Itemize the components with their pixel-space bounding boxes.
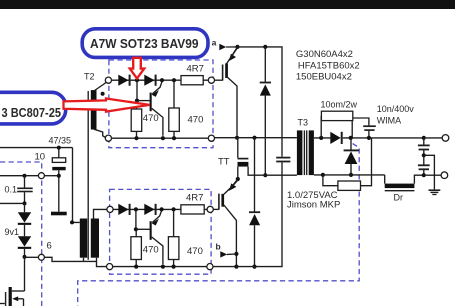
diode D lower left (18, 236, 31, 246)
wire T2 top lead (94, 83, 106, 91)
node D7 cathode (349, 136, 353, 140)
svg-text:10: 10 (35, 151, 46, 162)
capacitor C 0.1 (24, 176, 26, 188)
arrow red down (130, 58, 144, 79)
resistor 4R7 upper (181, 76, 203, 85)
terminal lower box right-top (207, 206, 213, 212)
node at R2 top (172, 78, 176, 82)
terminal circle lower on dashed box (38, 254, 44, 260)
svg-text:6: 6 (47, 240, 52, 251)
resistor R2 470 upper (173, 80, 175, 108)
transformer T2 core (87, 91, 89, 260)
svg-text:Dr: Dr (394, 193, 404, 203)
wire terminal to cap (44, 175, 58, 177)
dashed box lower-right large region (78, 144, 360, 306)
node b collector (236, 177, 240, 181)
wire drain drop (24, 257, 26, 291)
svg-text:150EBU04x2: 150EBU04x2 (296, 72, 352, 83)
terminal upper box right-top (208, 77, 214, 83)
node cap bottom (367, 136, 371, 140)
capacitor C blocking in rail (276, 157, 290, 159)
wire upper box top rail (112, 79, 209, 81)
terminal lower box left-bottom (107, 264, 113, 270)
svg-text:47/35: 47/35 (49, 136, 72, 146)
diode D5 freewheel upper (264, 47, 266, 82)
node D8 bottom (349, 173, 353, 177)
node R3 bottom (134, 265, 138, 269)
wire T3 secondary bottom rail (314, 174, 385, 176)
capacitor output upper (422, 136, 426, 140)
wire to output terminal lower (426, 174, 441, 176)
terminal upper box left-top (105, 77, 111, 83)
wire node to terminal (25, 256, 39, 258)
node J3 (57, 174, 61, 178)
wire left at node J5 (0, 202, 25, 204)
capacitor 10n/400v WIMA (363, 125, 376, 127)
top black banner bar (0, 0, 455, 9)
zener D 9v1 (24, 203, 26, 212)
terminal circle on left dashed box (38, 173, 44, 179)
svg-text:G30N60A4x2: G30N60A4x2 (296, 49, 353, 60)
terminal lower box left-top (107, 206, 113, 212)
node J1 (57, 146, 61, 150)
svg-text:T2: T2 (84, 72, 95, 82)
arrow gate pointer upper (231, 47, 237, 57)
node snubber left (319, 136, 323, 140)
node b emitter (234, 252, 238, 256)
wire U2 collector (224, 180, 238, 194)
wire aux rail (0, 175, 38, 177)
wire base to Q1 (137, 100, 150, 102)
wire lower box top rail (113, 208, 207, 210)
wire base to Q2 (136, 228, 150, 230)
svg-text:10n/400v: 10n/400v (377, 104, 415, 114)
arrow red right (64, 99, 150, 112)
arrow gate pointer lower (232, 179, 238, 187)
node D1-D2 (135, 78, 139, 82)
wire lower box bottom rail (113, 266, 207, 268)
igbt U1 body bar (225, 63, 228, 78)
node cap1 return (263, 173, 267, 177)
transformer TT winding right (91, 219, 99, 258)
node base lower (134, 227, 138, 231)
wire T2 bottom lead (94, 129, 106, 137)
wire R1 top (136, 101, 138, 109)
svg-text:470: 470 (188, 115, 204, 126)
svg-text:9v1: 9v1 (5, 227, 20, 237)
node T2 top (101, 92, 105, 96)
terminal lower box right-bottom (207, 264, 213, 270)
terminal output plus (442, 135, 449, 142)
node base (135, 99, 139, 103)
node Q1 collector bottom (161, 136, 165, 140)
transistor Q1 PNP (150, 93, 152, 112)
capacitor MKP box (323, 175, 338, 186)
capacitor C coupling mid (237, 138, 239, 158)
node diode top (263, 45, 267, 49)
wire base drop lower (135, 209, 137, 229)
svg-text:3 BC807-25: 3 BC807-25 (2, 106, 62, 120)
resistor R3 470 lower (131, 237, 142, 260)
svg-text:WIMA: WIMA (377, 115, 402, 125)
svg-text:a: a (212, 38, 217, 48)
svg-text:470: 470 (187, 246, 203, 257)
dashed box upper gate-drive module (109, 60, 213, 148)
svg-text:HFA15TB60x2: HFA15TB60x2 (298, 61, 360, 72)
node output lower (422, 173, 426, 177)
node Q2 collector bottom (161, 265, 165, 269)
node D3-D4 (134, 207, 138, 211)
wire to output terminal upper (426, 137, 442, 139)
svg-text:0.1: 0.1 (5, 185, 18, 195)
resistor R1 470 upper (131, 109, 142, 131)
wire TT right top lead (94, 209, 107, 218)
wire down to TT primary (73, 148, 80, 223)
wire T3 primary bottom (265, 174, 297, 176)
wire R3 top (135, 229, 137, 236)
diode D6 freewheel lower (254, 138, 256, 212)
terminal upper box right-bottom (208, 135, 214, 141)
ground (429, 189, 441, 191)
diode D8 clamp (350, 138, 352, 150)
svg-text:TT: TT (218, 157, 230, 168)
node D6 bottom (252, 265, 256, 269)
transformer TT winding left (80, 219, 87, 258)
wire TT left bottom lead (83, 258, 85, 262)
wire TT right bottom lead (96, 258, 98, 262)
capacitor plate bar lower (51, 212, 67, 216)
svg-text:10om/2w: 10om/2w (321, 100, 358, 110)
dashed box left region (0, 162, 42, 306)
callout box A7W SOT23 BAV99 (82, 29, 208, 58)
arrow input b (220, 251, 227, 257)
wire bottom dc rail (213, 162, 282, 266)
wire lower box feed (44, 257, 106, 266)
node J5 (23, 201, 27, 205)
wire gate lower (213, 208, 219, 210)
node J4 (23, 174, 27, 178)
node J6 (23, 255, 27, 259)
diode D2 upper (144, 75, 154, 86)
node R4 bottom (172, 265, 176, 269)
node a collector (235, 45, 239, 49)
svg-text:470: 470 (143, 245, 159, 256)
resistor 4R7 lower (181, 205, 204, 214)
arrow input a (219, 44, 226, 50)
svg-text:T3: T3 (298, 117, 309, 127)
transformer T2 winding (91, 90, 97, 129)
igbt U1 gate bar (222, 65, 224, 81)
transformer T3 winding right (309, 130, 314, 175)
wire U1 collector (227, 48, 238, 64)
wire top feed rail (0, 147, 73, 149)
node b emitter bottom (234, 265, 238, 269)
igbt U2 gate bar (218, 194, 220, 210)
capacitor C 47/35 electrolytic (58, 148, 60, 158)
node J2 (70, 220, 74, 224)
igbt U2 body bar (221, 194, 224, 207)
node after D2 (160, 78, 164, 82)
diode D3 lower (118, 204, 128, 215)
wire T3 secondary top (314, 137, 331, 139)
resistor R4 470 lower (173, 209, 175, 236)
node midpoint emitter (235, 136, 239, 140)
node after D4 (160, 207, 164, 211)
transformer T3 winding left (297, 130, 303, 175)
mosfet Q3 (12, 290, 25, 292)
wire midpoint to ground (424, 155, 435, 189)
transistor Q2 PNP (150, 221, 152, 240)
callout box BC807-25 (0, 92, 66, 124)
dashed box lower gate-drive module (110, 189, 212, 274)
diode D7 output (330, 132, 340, 144)
svg-text:b: b (216, 242, 221, 252)
terminal output minus (441, 172, 448, 179)
node cap midpoint (422, 153, 426, 157)
wire gate upper (215, 79, 223, 81)
node mkp left (321, 173, 325, 177)
wire base drop (136, 80, 138, 100)
node lower diode top (252, 136, 256, 140)
svg-text:470: 470 (143, 113, 159, 124)
node R1 bottom (134, 136, 138, 140)
wire resistor to cap top (353, 118, 369, 125)
diode D4 lower (144, 204, 154, 215)
wire upper box bottom rail (112, 137, 209, 139)
wire top dc rail (238, 47, 283, 155)
node at R4 top (172, 207, 176, 211)
svg-text:Jimson MKP: Jimson MKP (287, 200, 340, 211)
capacitor output lower (418, 164, 430, 166)
inductor Dr (384, 175, 386, 184)
resistor 10om/2w (320, 116, 322, 138)
wire midpoint rail to T3 (215, 137, 297, 139)
transformer T3 core (303, 130, 305, 175)
wire U2 emitter (224, 205, 237, 267)
node R2 bottom (172, 136, 176, 140)
terminal upper box left-bottom (105, 135, 111, 141)
svg-text:4R7: 4R7 (186, 193, 203, 204)
diode D1 upper (118, 75, 128, 86)
svg-text:A7W SOT23 BAV99: A7W SOT23 BAV99 (90, 37, 199, 51)
svg-text:4R7: 4R7 (187, 64, 204, 75)
wire U1 emitter (227, 76, 238, 135)
